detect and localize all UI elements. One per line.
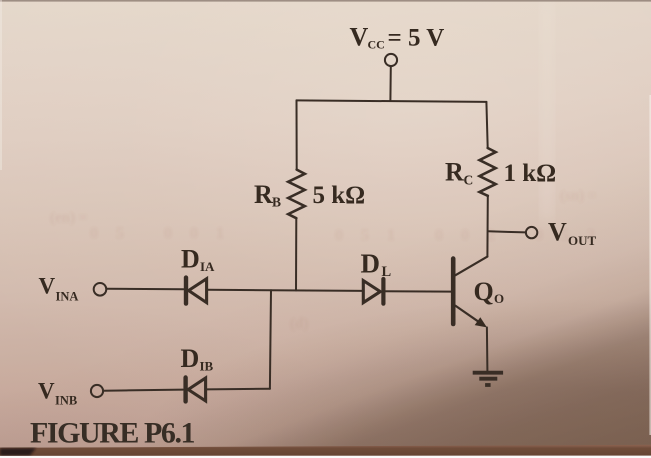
wire RB top: [296, 100, 298, 169]
wire DIB to node B: [206, 388, 270, 391]
resistor RB: [288, 170, 305, 219]
label DIB: [181, 344, 214, 373]
VINA terminal: [94, 283, 107, 296]
label VINB: [38, 378, 77, 407]
diode DIB: [186, 378, 206, 402]
wire DL to base: [383, 290, 451, 292]
Vcc label: [350, 23, 445, 52]
wire VINB to DIB: [103, 390, 183, 391]
label RB: [254, 180, 281, 210]
label DIA: [181, 244, 215, 274]
wire VINA to DIA: [107, 288, 184, 290]
Vout terminal: [526, 227, 537, 238]
wire DIA to DL (through nodes): [207, 290, 364, 291]
label DL: [361, 248, 392, 280]
bottom page-edge shadow strip: [0, 445, 651, 456]
label Q0: [474, 277, 505, 306]
VINB terminal: [91, 385, 103, 397]
label VINA: [39, 273, 79, 303]
wire top rail: [297, 100, 487, 102]
label RC: [445, 158, 473, 188]
transistor Q0: [453, 257, 487, 328]
wire RB bottom: [295, 218, 297, 290]
wire emitter to ground: [486, 327, 489, 370]
label Vout: [548, 218, 597, 248]
wire Vcc stem: [389, 66, 391, 101]
faint show-through marks: [50, 188, 613, 332]
wire collector vertical: [486, 196, 488, 257]
resistor RC: [480, 148, 496, 196]
diode DL: [363, 279, 383, 304]
ground: [473, 373, 503, 385]
Vcc terminal: [385, 54, 397, 66]
node B: junction down to DIB: [270, 290, 271, 388]
wire RC top: [486, 102, 487, 148]
wire Vout: [488, 231, 526, 232]
diode DIA: [186, 278, 207, 304]
